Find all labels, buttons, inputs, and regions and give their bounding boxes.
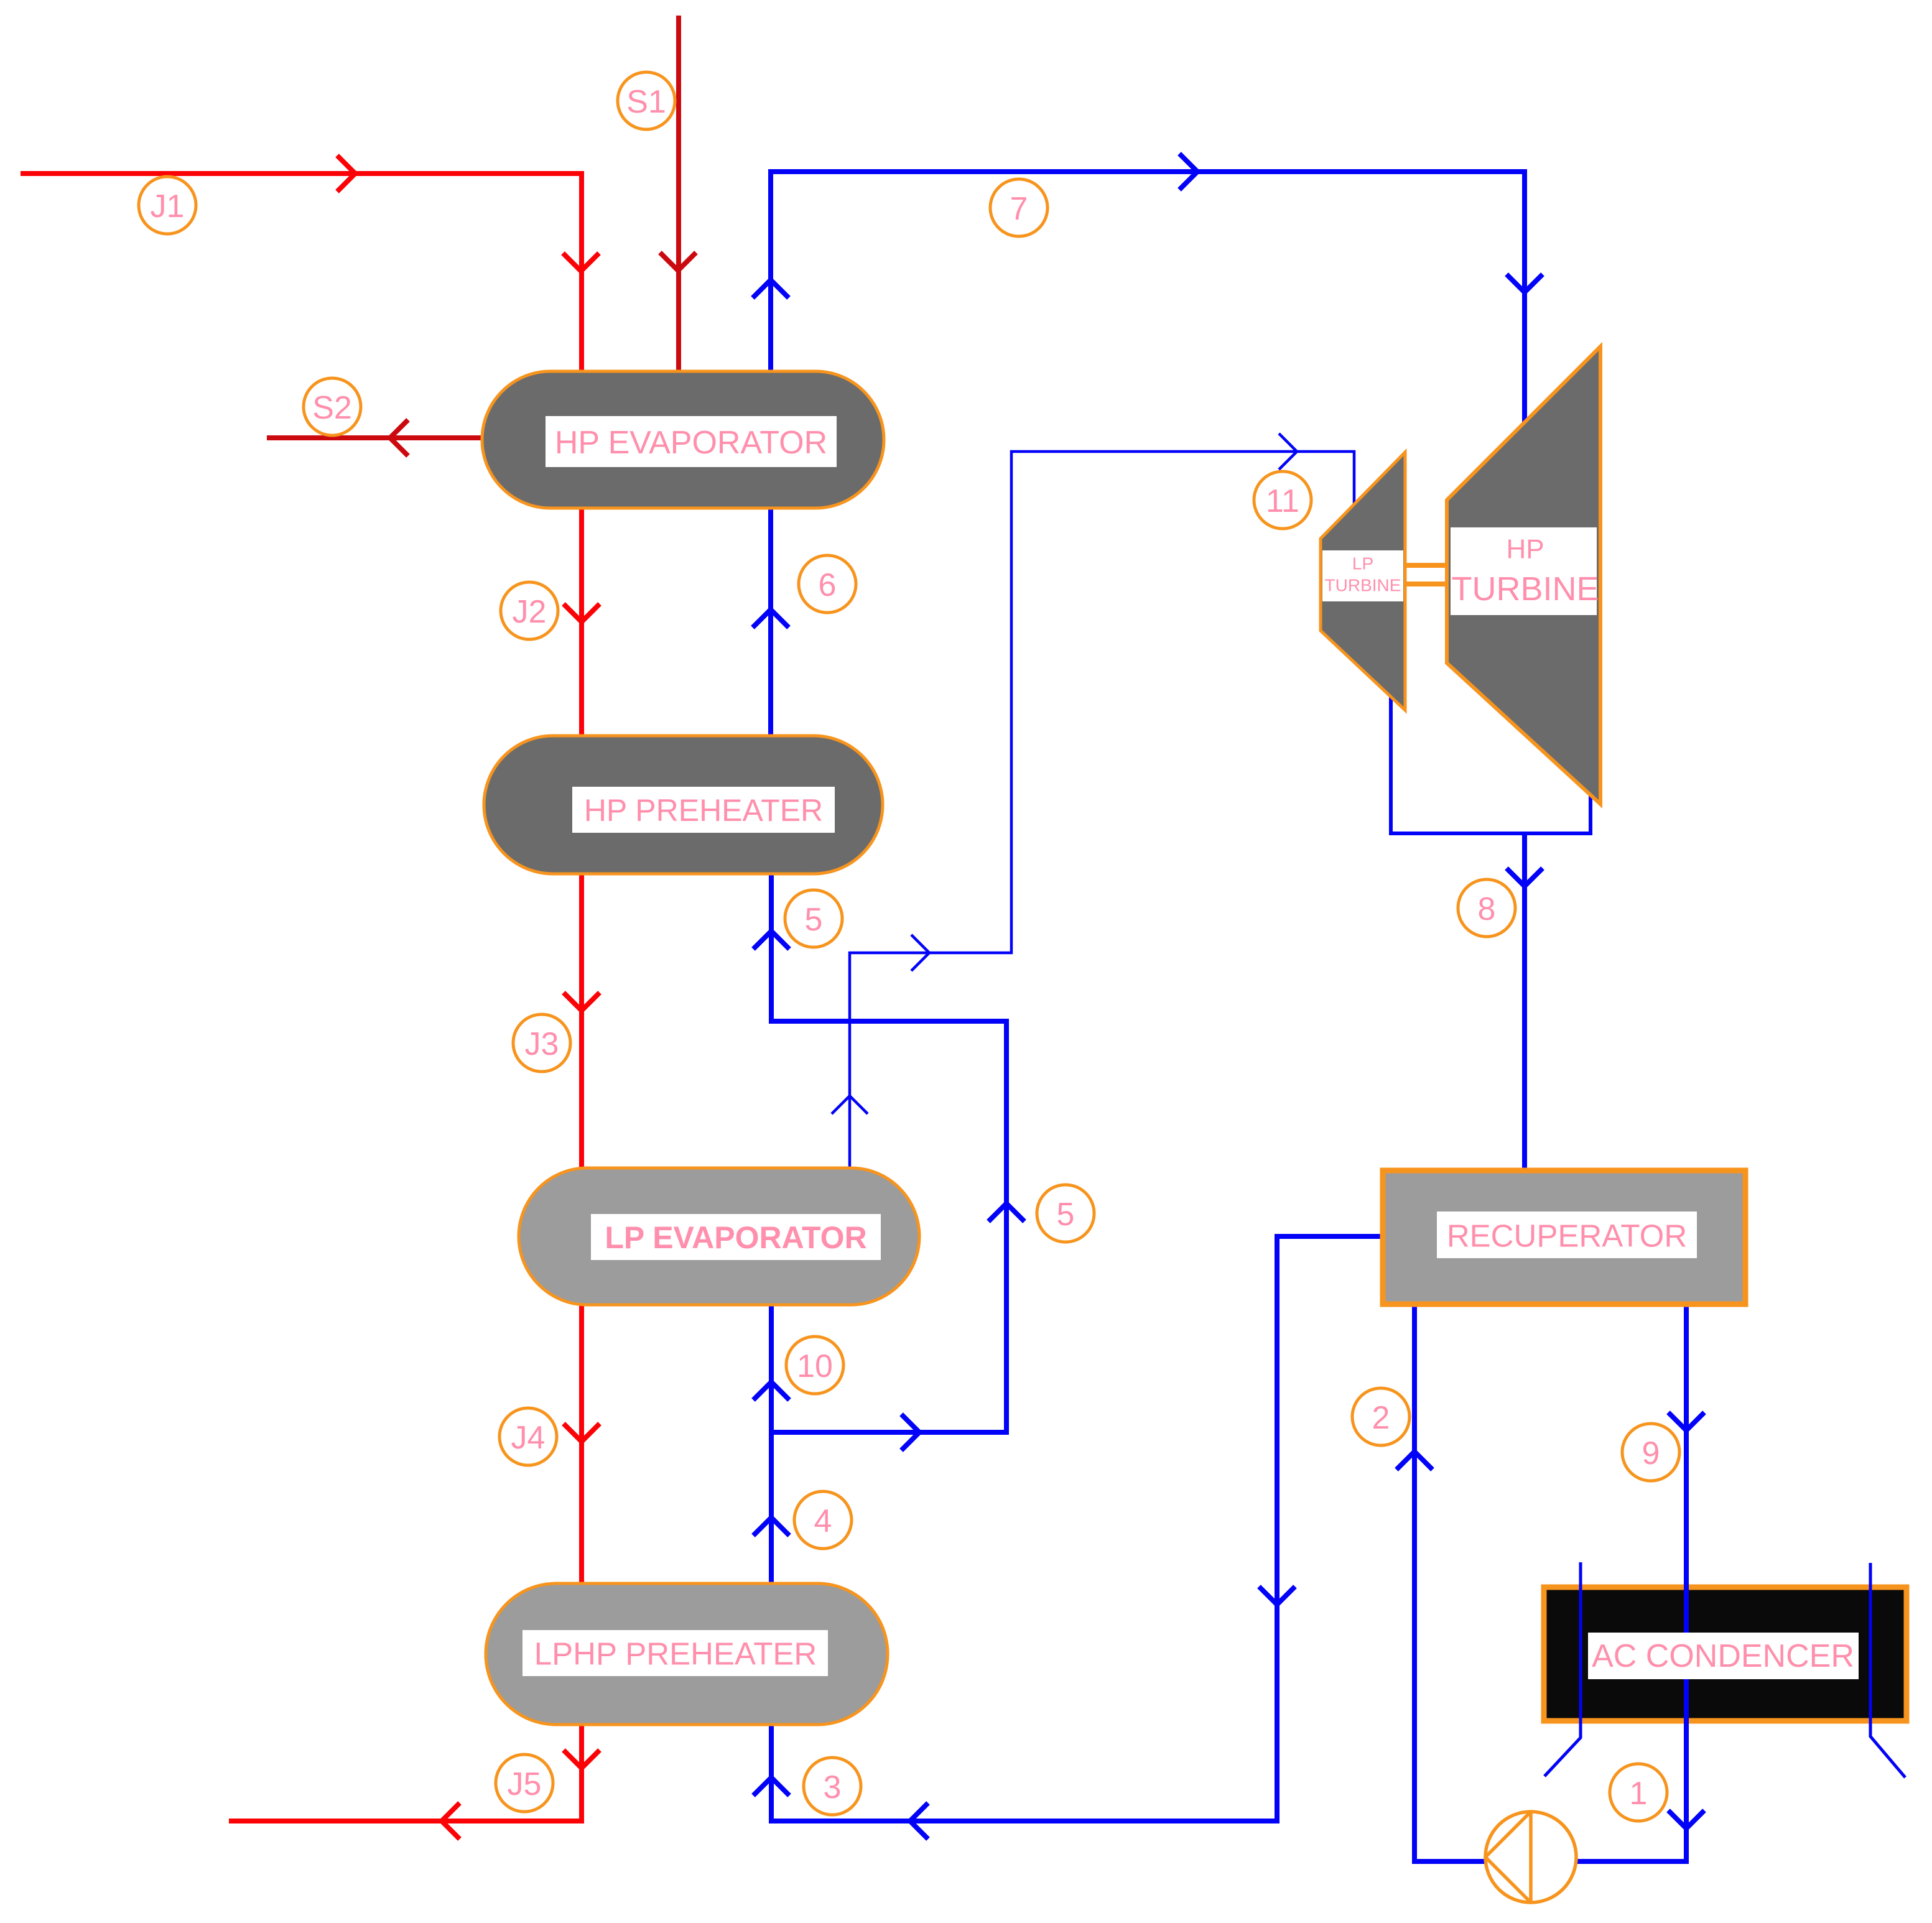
svg-text:HP: HP <box>1506 534 1544 565</box>
svg-text:11: 11 <box>1266 483 1299 519</box>
svg-text:S2: S2 <box>312 390 352 426</box>
svg-text:7: 7 <box>1010 191 1028 227</box>
svg-text:LP EVAPORATOR: LP EVAPORATOR <box>605 1220 866 1255</box>
svg-text:2: 2 <box>1372 1400 1390 1436</box>
svg-text:S1: S1 <box>626 84 666 120</box>
svg-text:J3: J3 <box>525 1026 559 1062</box>
svg-text:J4: J4 <box>511 1420 546 1456</box>
svg-text:J5: J5 <box>508 1766 542 1802</box>
svg-text:6: 6 <box>819 567 837 603</box>
svg-text:LPHP PREHEATER: LPHP PREHEATER <box>534 1636 817 1672</box>
svg-text:J2: J2 <box>513 594 547 630</box>
svg-text:HP PREHEATER: HP PREHEATER <box>584 793 823 828</box>
svg-text:LP: LP <box>1352 554 1373 573</box>
svg-text:RECUPERATOR: RECUPERATOR <box>1447 1218 1687 1254</box>
svg-text:J1: J1 <box>151 188 185 225</box>
svg-text:4: 4 <box>814 1503 832 1539</box>
svg-text:1: 1 <box>1630 1776 1648 1812</box>
svg-text:5: 5 <box>805 902 823 938</box>
svg-text:TURBINE: TURBINE <box>1325 576 1401 595</box>
svg-text:8: 8 <box>1478 891 1496 927</box>
svg-text:AC CONDENCER: AC CONDENCER <box>1592 1638 1854 1674</box>
svg-text:TURBINE: TURBINE <box>1451 570 1599 608</box>
svg-text:HP EVAPORATOR: HP EVAPORATOR <box>555 425 827 461</box>
svg-text:5: 5 <box>1057 1197 1075 1233</box>
svg-text:9: 9 <box>1642 1435 1660 1471</box>
svg-text:10: 10 <box>797 1348 833 1384</box>
svg-text:3: 3 <box>824 1769 842 1805</box>
